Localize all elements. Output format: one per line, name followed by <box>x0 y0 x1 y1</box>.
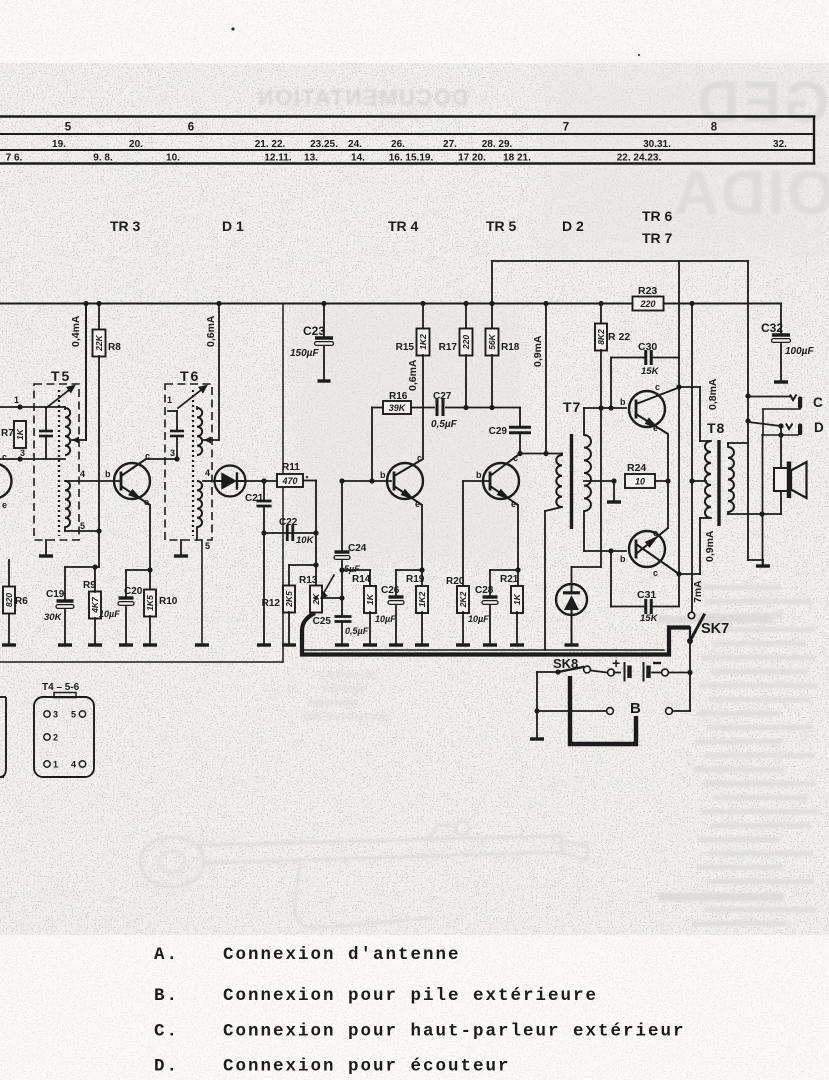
svg-text:C24: C24 <box>348 543 367 554</box>
svg-text:0,6mA: 0,6mA <box>407 359 419 391</box>
svg-text:Connexion pour pile extérieure: Connexion pour pile extérieure <box>223 986 598 1006</box>
svg-text:1K: 1K <box>365 593 375 605</box>
svg-text:e: e <box>415 499 420 509</box>
svg-text:C26: C26 <box>381 585 400 596</box>
svg-text:C.: C. <box>154 1022 179 1042</box>
svg-text:8: 8 <box>711 122 718 134</box>
svg-text:2K5: 2K5 <box>284 591 294 608</box>
svg-text:B.: B. <box>154 986 179 1006</box>
svg-text:4: 4 <box>71 760 76 770</box>
svg-text:27.: 27. <box>443 139 457 150</box>
svg-text:17 20.: 17 20. <box>458 153 486 164</box>
svg-text:32.: 32. <box>773 139 787 150</box>
svg-text:b: b <box>105 469 111 479</box>
svg-text:26.: 26. <box>391 139 405 150</box>
svg-text:20.: 20. <box>129 139 143 150</box>
svg-text:D 2: D 2 <box>562 218 584 234</box>
svg-text:56K: 56K <box>487 333 497 349</box>
svg-text:A.: A. <box>154 945 179 965</box>
svg-text:22K: 22K <box>94 334 104 351</box>
svg-text:DOCUMENTATION: DOCUMENTATION <box>256 85 468 110</box>
svg-text:C23: C23 <box>303 324 325 338</box>
svg-text:Diff. 5x1 mesures: Diff. 5x1 mesures <box>305 711 391 723</box>
svg-text:C: C <box>813 395 823 410</box>
svg-text:6: 6 <box>188 122 194 134</box>
svg-text:220: 220 <box>639 299 655 309</box>
svg-text:0,4mA: 0,4mA <box>70 315 82 347</box>
svg-text:e: e <box>144 497 149 507</box>
svg-text:e: e <box>653 528 658 538</box>
svg-text:1: 1 <box>53 760 58 770</box>
svg-text:3: 3 <box>170 448 175 458</box>
svg-text:10µF: 10µF <box>468 614 489 624</box>
svg-text:5: 5 <box>80 521 85 531</box>
svg-text:30K: 30K <box>44 612 63 623</box>
svg-text:R19: R19 <box>406 574 425 585</box>
svg-text:TR 6: TR 6 <box>642 208 673 224</box>
svg-text:1K5: 1K5 <box>145 595 155 611</box>
svg-text:3: 3 <box>53 710 58 720</box>
svg-text:T5: T5 <box>51 368 71 384</box>
svg-text:R6: R6 <box>15 596 28 607</box>
svg-text:15K: 15K <box>641 366 660 377</box>
svg-text:Connexion pour haut-parleur ex: Connexion pour haut-parleur extérieur <box>223 1022 686 1042</box>
svg-text:T4 – 5-6: T4 – 5-6 <box>42 682 80 693</box>
svg-text:C30: C30 <box>638 341 657 353</box>
svg-text:D.: D. <box>154 1057 179 1077</box>
svg-text:15K: 15K <box>640 613 659 624</box>
svg-text:16. 15.19.: 16. 15.19. <box>389 153 434 164</box>
svg-text:5: 5 <box>205 541 210 551</box>
svg-text:R14: R14 <box>352 574 371 585</box>
svg-text:Contrôle de: Contrôle de <box>318 669 375 681</box>
svg-text:10K: 10K <box>296 535 315 546</box>
svg-text:laborantin: laborantin <box>310 697 358 709</box>
svg-text:Connexion pour écouteur: Connexion pour écouteur <box>223 1057 511 1077</box>
svg-text:R8: R8 <box>108 342 121 353</box>
svg-text:0,6mA: 0,6mA <box>205 315 217 347</box>
svg-text:+: + <box>612 655 620 671</box>
svg-text:100µF: 100µF <box>785 346 814 357</box>
svg-text:T6: T6 <box>180 368 200 384</box>
svg-text:2K2: 2K2 <box>458 591 468 608</box>
svg-text:1K: 1K <box>512 593 522 605</box>
svg-text:C29: C29 <box>489 426 508 437</box>
svg-text:R24: R24 <box>627 462 646 474</box>
svg-text:OIDA: OIDA <box>672 159 829 228</box>
svg-text:C19: C19 <box>46 589 65 600</box>
svg-text:0,9mA: 0,9mA <box>532 335 544 367</box>
svg-text:1K: 1K <box>15 428 25 440</box>
svg-text:Connexion d'antenne: Connexion d'antenne <box>223 945 461 965</box>
svg-text:C32: C32 <box>761 321 783 335</box>
svg-text:220: 220 <box>461 335 471 350</box>
svg-text:23.25.: 23.25. <box>310 139 338 150</box>
svg-text:7 6.: 7 6. <box>6 153 23 164</box>
svg-text:39K: 39K <box>389 403 407 413</box>
svg-text:e: e <box>511 499 516 509</box>
svg-text:R13: R13 <box>299 575 318 586</box>
svg-text:montage: montage <box>322 683 365 695</box>
svg-text:T8: T8 <box>707 420 725 436</box>
svg-text:470: 470 <box>281 476 297 486</box>
svg-text:c: c <box>655 382 660 392</box>
svg-text:21. 22.: 21. 22. <box>255 139 286 150</box>
svg-text:R18: R18 <box>501 342 520 353</box>
svg-text:30.31.: 30.31. <box>643 139 671 150</box>
svg-text:e: e <box>653 423 658 433</box>
svg-text:D 1: D 1 <box>222 218 244 234</box>
svg-text:22. 24.23.: 22. 24.23. <box>617 153 662 164</box>
svg-text:14.: 14. <box>351 153 365 164</box>
svg-text:0,8mA: 0,8mA <box>707 378 719 410</box>
svg-text:4: 4 <box>80 469 85 479</box>
svg-text:19.: 19. <box>52 139 66 150</box>
svg-text:TR 3: TR 3 <box>110 218 141 234</box>
svg-text:0,9mA: 0,9mA <box>704 530 716 562</box>
svg-text:c: c <box>653 568 658 578</box>
svg-text:R21: R21 <box>500 574 519 585</box>
svg-text:7: 7 <box>563 122 569 134</box>
svg-text:9. 8.: 9. 8. <box>93 153 113 164</box>
svg-text:1K2: 1K2 <box>418 334 428 350</box>
svg-text:R7: R7 <box>1 428 14 439</box>
svg-text:2: 2 <box>53 733 58 743</box>
svg-text:18 21.: 18 21. <box>503 153 531 164</box>
svg-text:10: 10 <box>635 477 645 487</box>
svg-text:R15: R15 <box>396 342 415 353</box>
svg-text:8K2: 8K2 <box>596 329 606 345</box>
svg-text:b: b <box>380 470 386 480</box>
svg-text:1: 1 <box>167 395 172 405</box>
svg-text:R 22: R 22 <box>608 331 630 343</box>
svg-text:c: c <box>2 452 7 462</box>
svg-text:C28: C28 <box>475 585 494 596</box>
svg-text:TR 7: TR 7 <box>642 230 673 246</box>
svg-text:c: c <box>417 453 422 463</box>
svg-text:B: B <box>630 700 641 717</box>
svg-text:150µF: 150µF <box>290 348 319 359</box>
svg-text:b: b <box>620 397 626 407</box>
svg-text:b: b <box>620 554 626 564</box>
svg-text:D: D <box>814 420 824 435</box>
svg-text:R12: R12 <box>262 598 281 609</box>
svg-text:0,5µF: 0,5µF <box>345 626 369 636</box>
svg-text:T7: T7 <box>563 399 581 415</box>
svg-text:10.: 10. <box>166 153 180 164</box>
svg-text:24.: 24. <box>348 139 362 150</box>
svg-text:R23: R23 <box>638 285 657 297</box>
svg-text:b: b <box>476 470 482 480</box>
svg-text:1: 1 <box>14 395 19 405</box>
svg-text:5µF: 5µF <box>344 564 360 574</box>
svg-text:TR 5: TR 5 <box>486 218 517 234</box>
svg-text:e: e <box>2 500 7 510</box>
svg-text:c: c <box>513 453 518 463</box>
svg-text:10µF: 10µF <box>375 614 396 624</box>
svg-text:0,5µF: 0,5µF <box>431 419 458 430</box>
svg-text:5: 5 <box>65 122 72 134</box>
svg-text:3: 3 <box>20 448 25 458</box>
svg-text:C25: C25 <box>313 616 332 627</box>
svg-text:TR 4: TR 4 <box>388 218 419 234</box>
svg-text:820: 820 <box>4 593 14 607</box>
svg-text:4: 4 <box>205 468 210 478</box>
svg-text:13.: 13. <box>304 153 318 164</box>
svg-text:1K2: 1K2 <box>417 591 427 607</box>
svg-text:SK7: SK7 <box>701 621 729 637</box>
svg-text:12.11.: 12.11. <box>264 153 291 164</box>
svg-text:5: 5 <box>71 710 76 720</box>
svg-text:7mA: 7mA <box>692 580 704 603</box>
svg-text:R17: R17 <box>439 342 458 353</box>
svg-text:R11: R11 <box>282 462 300 473</box>
svg-text:10µF: 10µF <box>99 609 120 619</box>
svg-text:28. 29.: 28. 29. <box>482 139 513 150</box>
svg-text:R10: R10 <box>159 596 178 607</box>
